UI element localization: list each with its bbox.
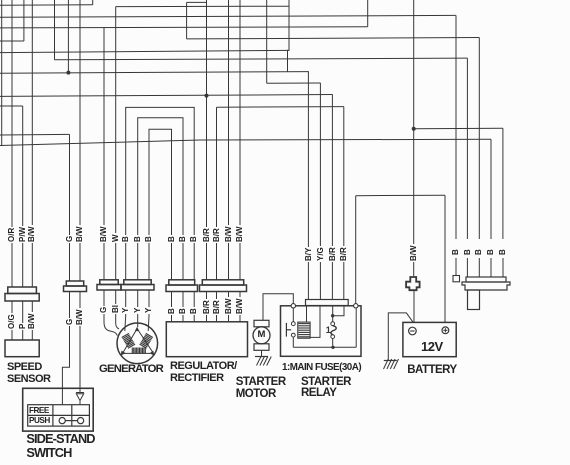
svg-text:1: 1 (326, 325, 331, 335)
